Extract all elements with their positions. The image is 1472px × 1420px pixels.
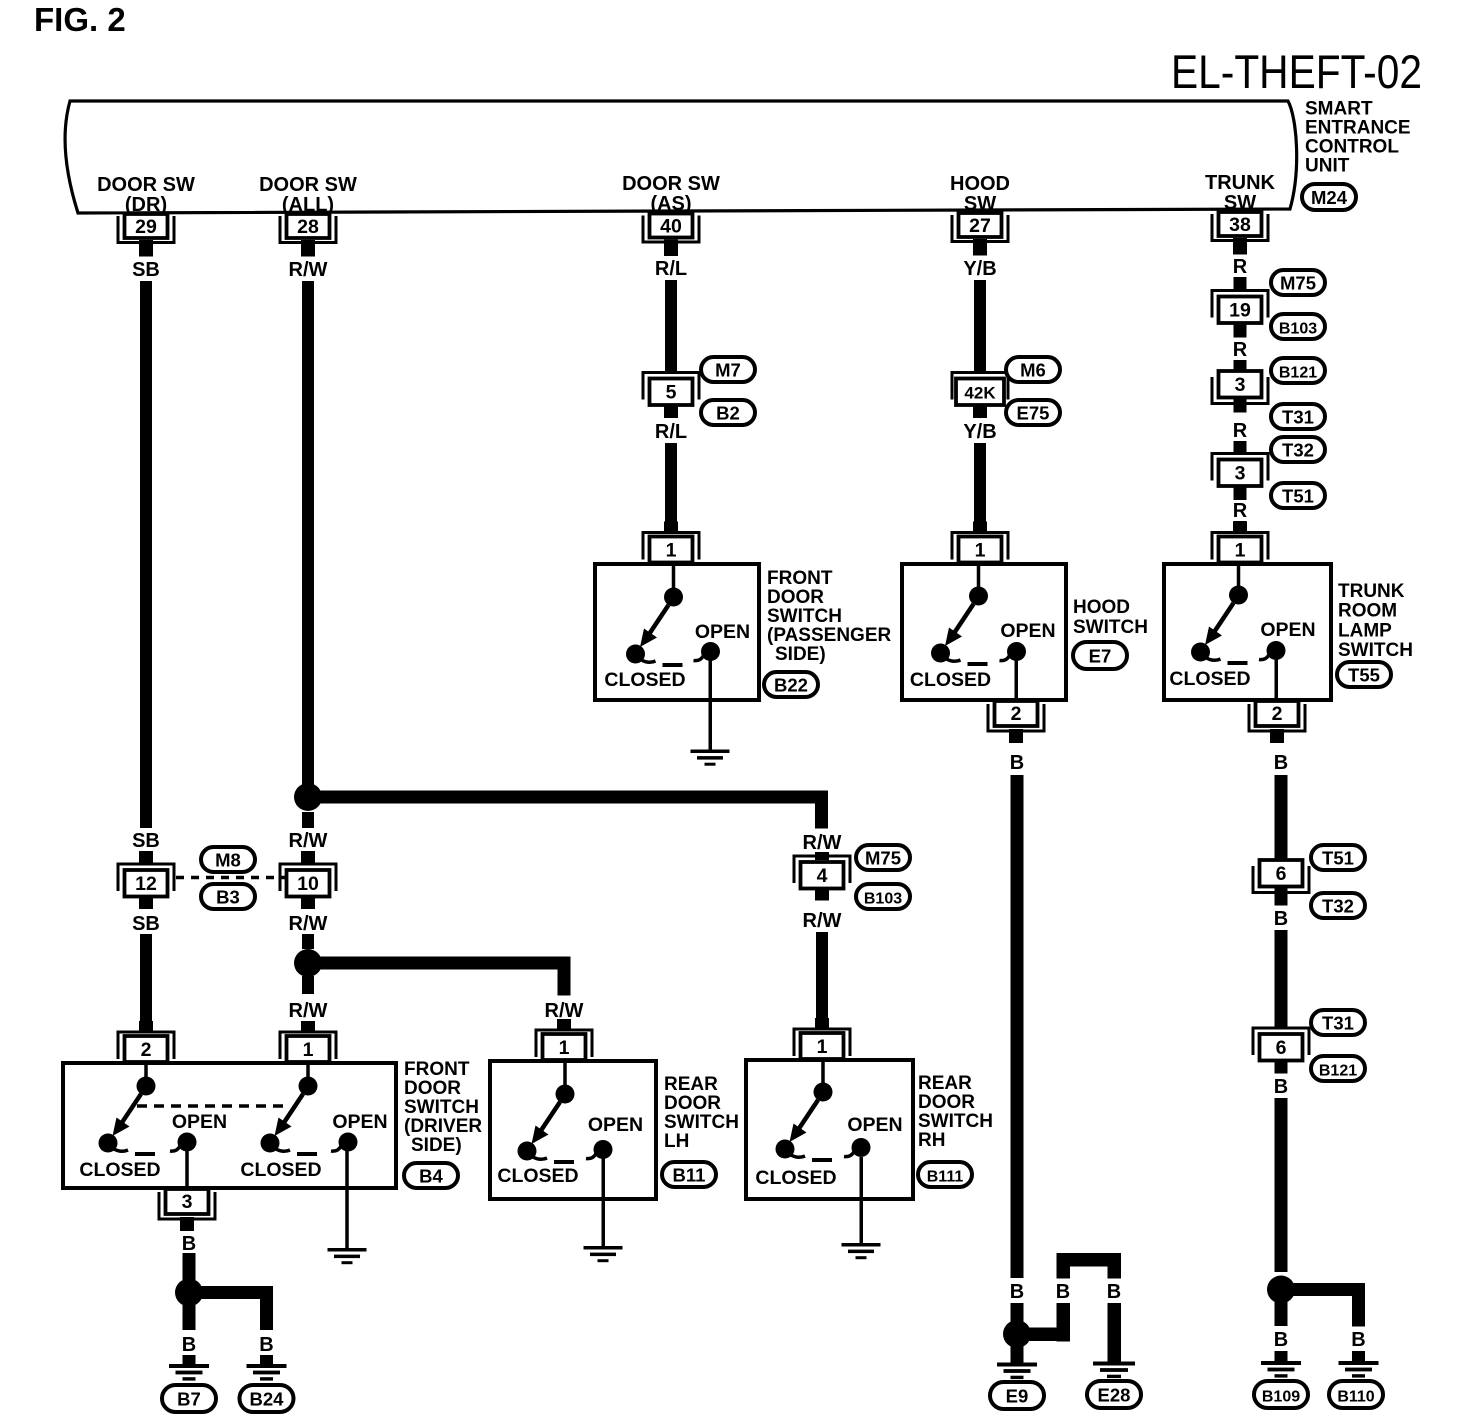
pin 1 trunk switch xyxy=(1212,522,1268,563)
label FRONT DOOR SWITCH (PASSENGER SIDE) xyxy=(767,568,892,665)
svg-text:DOOR SW: DOOR SW xyxy=(622,173,720,195)
ground B109 xyxy=(1261,1361,1301,1378)
wire open to pin2 trunk xyxy=(1275,659,1279,700)
wire E28 leg xyxy=(1108,1303,1122,1362)
ground LH xyxy=(584,1246,623,1262)
label R 2 xyxy=(1233,339,1248,361)
wire SB col1 xyxy=(140,281,152,828)
pin 2 driver switch xyxy=(118,1021,174,1062)
svg-text:1: 1 xyxy=(975,540,986,562)
svg-text:SB: SB xyxy=(132,913,160,935)
svg-text:B: B xyxy=(1010,752,1024,774)
svg-text:B103: B103 xyxy=(1279,321,1317,338)
wire open2 driver ground xyxy=(345,1151,349,1248)
svg-text:R/L: R/L xyxy=(655,258,687,280)
svg-text:LAMP: LAMP xyxy=(1338,620,1392,641)
svg-text:R: R xyxy=(1233,339,1248,361)
svg-text:CONTROL: CONTROL xyxy=(1305,137,1399,158)
ground wire LH xyxy=(602,1158,606,1246)
svg-text:LH: LH xyxy=(664,1131,689,1152)
svg-text:OPEN: OPEN xyxy=(847,1114,902,1136)
ground RH xyxy=(842,1243,881,1259)
svg-text:(PASSENGER: (PASSENGER xyxy=(767,625,892,646)
label TRUNK ROOM LAMP SWITCH xyxy=(1338,581,1413,661)
svg-text:TRUNK: TRUNK xyxy=(1338,581,1405,602)
connector 12 xyxy=(118,864,174,897)
svg-text:CLOSED: CLOSED xyxy=(79,1159,160,1181)
wire stub B7 b xyxy=(183,1355,196,1364)
wire B trunk seg1 xyxy=(1275,775,1288,860)
connector T31 trunk xyxy=(1271,404,1325,429)
svg-text:B11: B11 xyxy=(673,1165,706,1186)
wire B driver xyxy=(183,1253,196,1280)
svg-text:E7: E7 xyxy=(1089,646,1112,667)
connector 6 first xyxy=(1253,860,1309,893)
svg-text:1: 1 xyxy=(1235,540,1246,562)
svg-text:3: 3 xyxy=(182,1191,193,1213)
wire R seg1 xyxy=(1234,277,1247,290)
label REAR DOOR SWITCH LH xyxy=(664,1074,739,1152)
svg-text:B103: B103 xyxy=(864,891,902,908)
connector B121 lower xyxy=(1311,1056,1365,1081)
pin 40 xyxy=(643,214,699,257)
svg-text:R: R xyxy=(1233,500,1248,522)
connector 6 second stub xyxy=(1275,1061,1288,1074)
svg-text:T32: T32 xyxy=(1322,896,1354,917)
label B B110 xyxy=(1351,1329,1365,1351)
wire stub B110 b xyxy=(1352,1351,1365,1362)
svg-text:R/L: R/L xyxy=(655,421,687,443)
connector 6 second xyxy=(1253,1028,1309,1061)
svg-text:B: B xyxy=(1351,1329,1365,1351)
front door switch passenger box xyxy=(595,564,759,700)
svg-text:B: B xyxy=(1010,1281,1024,1303)
svg-text:R/W: R/W xyxy=(545,1000,584,1022)
ground E28 xyxy=(1093,1362,1135,1379)
wire R/W col2 xyxy=(302,281,314,786)
connector 19 stub bottom xyxy=(1234,323,1247,338)
svg-text:HOOD: HOOD xyxy=(1073,597,1130,618)
wire B trunk seg2 xyxy=(1275,930,1288,1028)
svg-text:CLOSED: CLOSED xyxy=(910,669,991,691)
svg-text:B: B xyxy=(1056,1281,1070,1303)
label DOOR SW (AS) xyxy=(622,173,720,215)
label OPEN passenger xyxy=(695,621,750,643)
connector B3 xyxy=(201,884,255,909)
junction node hood ground xyxy=(1003,1320,1031,1348)
connector B7 xyxy=(162,1385,216,1412)
svg-text:OPEN: OPEN xyxy=(1260,619,1315,641)
wire open to pin2 hood xyxy=(1015,660,1019,702)
svg-text:DOOR: DOOR xyxy=(404,1078,461,1099)
svg-text:RH: RH xyxy=(918,1130,945,1151)
connector 19 xyxy=(1212,291,1268,324)
svg-text:40: 40 xyxy=(660,216,682,238)
svg-text:T51: T51 xyxy=(1322,848,1354,869)
svg-text:OPEN: OPEN xyxy=(1000,620,1055,642)
label CLOSED passenger xyxy=(604,669,685,691)
ground driver open2 xyxy=(328,1248,367,1264)
wire R seg2 xyxy=(1234,360,1247,372)
connector B2 xyxy=(701,400,755,425)
ground wire RH xyxy=(860,1157,864,1244)
smart entrance control unit box xyxy=(65,101,1297,213)
label R/L 2 xyxy=(655,421,687,443)
label CLOSED hood xyxy=(910,669,991,691)
svg-text:CLOSED: CLOSED xyxy=(240,1159,321,1181)
svg-text:B110: B110 xyxy=(1337,1389,1374,1406)
label B E28 left xyxy=(1056,1281,1070,1303)
svg-text:R/W: R/W xyxy=(289,913,328,935)
wire stub B24 b xyxy=(260,1355,273,1364)
connector M75 RH xyxy=(856,845,910,870)
switch driver 2 xyxy=(261,1063,358,1156)
svg-text:SWITCH: SWITCH xyxy=(918,1111,993,1132)
svg-text:B: B xyxy=(1274,1076,1288,1098)
pin 3 driver switch xyxy=(159,1189,215,1231)
connector E7 xyxy=(1073,642,1127,669)
pin 1 driver switch xyxy=(280,1021,336,1062)
connector 5 xyxy=(643,373,699,406)
connector B111 xyxy=(918,1162,972,1187)
junction node driver ground xyxy=(175,1279,203,1307)
connector M24 xyxy=(1302,184,1356,210)
svg-text:B121: B121 xyxy=(1319,1063,1357,1080)
svg-text:T32: T32 xyxy=(1282,440,1314,461)
connector M7 xyxy=(701,357,755,382)
svg-text:SWITCH: SWITCH xyxy=(1073,617,1148,638)
svg-text:1: 1 xyxy=(303,1039,314,1061)
svg-text:10: 10 xyxy=(297,873,319,895)
connector M75 trunk xyxy=(1271,270,1325,295)
connector B109 xyxy=(1254,1381,1308,1408)
rear door switch RH box xyxy=(746,1060,913,1199)
svg-text:2: 2 xyxy=(1011,703,1022,725)
connector T32 trunk xyxy=(1271,437,1325,462)
connector 4 xyxy=(794,856,850,889)
svg-text:E28: E28 xyxy=(1098,1385,1131,1406)
connector 10 stub bottom xyxy=(301,897,315,910)
svg-text:SWITCH: SWITCH xyxy=(664,1112,739,1133)
svg-text:SWITCH: SWITCH xyxy=(1338,640,1413,661)
svg-text:4: 4 xyxy=(817,865,828,887)
connector B22 xyxy=(764,672,818,697)
svg-text:5: 5 xyxy=(666,382,677,404)
connector E28 xyxy=(1087,1381,1141,1408)
wire R/W RH xyxy=(816,932,828,1021)
connector 4 stub bottom xyxy=(815,889,829,901)
ground B110 xyxy=(1339,1361,1379,1378)
label Y/B 2 xyxy=(963,421,996,443)
svg-text:2: 2 xyxy=(1272,703,1283,725)
svg-text:SWITCH: SWITCH xyxy=(767,606,842,627)
label DOOR SW (DR) xyxy=(97,174,195,216)
pin 27 xyxy=(952,213,1008,256)
connector 3 first xyxy=(1212,371,1268,404)
svg-text:28: 28 xyxy=(297,216,319,238)
label B trunk 3 xyxy=(1274,1076,1288,1098)
hood switch box xyxy=(902,564,1066,700)
wire R seg3 xyxy=(1234,441,1247,453)
ground B7 xyxy=(169,1364,209,1381)
svg-text:3: 3 xyxy=(1235,374,1246,396)
label B B7 xyxy=(182,1334,196,1356)
label R/W col2 b xyxy=(289,830,328,852)
pin 2 trunk switch xyxy=(1249,701,1305,743)
svg-text:R: R xyxy=(1233,256,1248,278)
wire stub B109 b xyxy=(1275,1351,1288,1362)
label OPEN driver 1 xyxy=(172,1111,227,1133)
svg-text:B: B xyxy=(1274,752,1288,774)
svg-text:B: B xyxy=(182,1334,196,1356)
svg-text:(DRIVER: (DRIVER xyxy=(404,1116,482,1137)
svg-text:T31: T31 xyxy=(1282,407,1314,428)
wire R/L upper xyxy=(665,280,677,372)
wire branch B24 xyxy=(200,1286,273,1330)
svg-text:Y/B: Y/B xyxy=(963,421,996,443)
junction node col2 lower xyxy=(294,949,322,977)
svg-text:HOOD: HOOD xyxy=(950,173,1010,195)
connector B110 xyxy=(1329,1381,1383,1408)
switch LH xyxy=(518,1061,613,1164)
svg-text:B: B xyxy=(182,1233,196,1255)
label B B109 xyxy=(1274,1329,1288,1351)
connector 3 second stub xyxy=(1234,486,1247,500)
svg-text:FRONT: FRONT xyxy=(404,1059,470,1080)
svg-text:B109: B109 xyxy=(1262,1389,1300,1406)
label TRUNK SW xyxy=(1205,172,1276,214)
svg-text:3: 3 xyxy=(1235,463,1246,485)
ground E9 xyxy=(997,1363,1037,1380)
svg-text:FIG. 2: FIG. 2 xyxy=(34,1,126,38)
pin 2 hood switch xyxy=(988,701,1044,743)
svg-text:EL-THEFT-02: EL-THEFT-02 xyxy=(1171,45,1422,98)
svg-text:DOOR SW: DOOR SW xyxy=(259,174,357,196)
svg-text:1: 1 xyxy=(559,1037,570,1059)
label SB 3 xyxy=(132,913,160,935)
svg-text:B: B xyxy=(1107,1281,1121,1303)
svg-text:6: 6 xyxy=(1276,863,1287,885)
connector B24 xyxy=(240,1385,294,1412)
label R/W LH xyxy=(545,1000,584,1022)
svg-text:OPEN: OPEN xyxy=(332,1111,387,1133)
svg-text:OPEN: OPEN xyxy=(588,1114,643,1136)
svg-text:DOOR SW: DOOR SW xyxy=(97,174,195,196)
svg-text:ENTRANCE: ENTRANCE xyxy=(1305,118,1411,139)
wire stub E9 xyxy=(1011,1346,1024,1364)
svg-text:B3: B3 xyxy=(216,887,240,908)
svg-text:19: 19 xyxy=(1229,300,1251,322)
label CLOSED trunk xyxy=(1169,668,1250,690)
label R 1 xyxy=(1233,256,1248,278)
connector 12 stub bottom xyxy=(139,897,153,910)
svg-text:DOOR: DOOR xyxy=(918,1092,975,1113)
junction node trunk ground xyxy=(1267,1276,1295,1304)
label SB 2 xyxy=(132,830,160,852)
label R/W col2 d xyxy=(289,1000,328,1022)
junction node col2 upper xyxy=(294,783,322,811)
wire col2 seg xyxy=(302,934,314,949)
label OPEN trunk xyxy=(1260,619,1315,641)
wire branch E28 xyxy=(1028,1253,1121,1342)
svg-text:M7: M7 xyxy=(715,360,741,381)
svg-text:UNIT: UNIT xyxy=(1305,156,1350,177)
svg-text:29: 29 xyxy=(135,216,157,238)
connector 5 stub bottom xyxy=(664,405,678,418)
connector 12 stub top xyxy=(139,851,153,865)
label R/W RH 2 xyxy=(803,910,842,932)
label Y/B xyxy=(963,258,996,280)
wire open1 to pin3 xyxy=(185,1151,189,1188)
pin 1 hood switch xyxy=(952,522,1008,563)
connector T51 lower xyxy=(1311,845,1365,870)
wire R seg4 xyxy=(1234,521,1247,532)
svg-text:ROOM: ROOM xyxy=(1338,601,1397,622)
connector E9 xyxy=(990,1382,1044,1409)
svg-text:42K: 42K xyxy=(964,384,996,403)
label CLOSED driver 1 xyxy=(79,1159,160,1181)
label HOOD SW xyxy=(950,173,1010,215)
dashed link M8/B3 xyxy=(176,876,296,880)
connector 6 first stub xyxy=(1275,887,1288,906)
connector B11 xyxy=(662,1162,716,1187)
label SMART ENTRANCE CONTROL UNIT xyxy=(1305,99,1411,177)
svg-text:OPEN: OPEN xyxy=(172,1111,227,1133)
svg-text:R: R xyxy=(1233,420,1248,442)
connector 4 stub top xyxy=(815,852,829,860)
wire SB col1 lower xyxy=(140,934,152,1021)
connector 3 second xyxy=(1212,454,1268,487)
svg-text:SWITCH: SWITCH xyxy=(404,1097,479,1118)
ground passenger xyxy=(691,750,730,766)
svg-text:38: 38 xyxy=(1229,214,1251,236)
svg-text:M8: M8 xyxy=(215,850,241,871)
svg-text:E9: E9 xyxy=(1006,1386,1029,1407)
svg-text:CLOSED: CLOSED xyxy=(604,669,685,691)
trunk room lamp switch box xyxy=(1164,564,1331,700)
svg-text:SIDE): SIDE) xyxy=(411,1135,462,1156)
label HOOD SWITCH xyxy=(1073,597,1148,638)
svg-text:R/W: R/W xyxy=(289,830,328,852)
label OPEN driver 2 xyxy=(332,1111,387,1133)
svg-text:R/W: R/W xyxy=(289,259,328,281)
svg-text:B: B xyxy=(259,1334,273,1356)
label R 4 xyxy=(1233,500,1248,522)
svg-text:R/W: R/W xyxy=(289,1000,328,1022)
connector 10 stub top xyxy=(301,851,315,865)
label B driver xyxy=(182,1233,196,1255)
connector B4 xyxy=(404,1163,458,1188)
pin 1 rear LH xyxy=(536,1019,592,1060)
label CLOSED LH xyxy=(497,1165,578,1187)
svg-text:1: 1 xyxy=(666,540,677,562)
label CLOSED driver 2 xyxy=(240,1159,321,1181)
label DOOR SW (ALL) xyxy=(259,174,357,216)
label R/W col2 xyxy=(289,259,328,281)
svg-text:M6: M6 xyxy=(1020,360,1046,381)
svg-text:B4: B4 xyxy=(419,1166,443,1187)
connector M8 xyxy=(201,847,255,872)
connector M6 xyxy=(1006,357,1060,382)
wire B hood xyxy=(1011,775,1024,1278)
svg-text:CLOSED: CLOSED xyxy=(755,1167,836,1189)
wire Y/B lower xyxy=(974,443,986,523)
connector T51 trunk xyxy=(1271,483,1325,508)
connector B103 RH xyxy=(856,884,910,909)
connector 3 first stub xyxy=(1234,398,1247,413)
connector B121 trunk xyxy=(1271,358,1325,383)
wire B hood lower xyxy=(1011,1303,1024,1323)
svg-text:B121: B121 xyxy=(1279,365,1317,382)
dashed line driver xyxy=(137,1104,290,1108)
connector T32 lower xyxy=(1311,893,1365,918)
svg-text:6: 6 xyxy=(1276,1037,1287,1059)
svg-text:REAR: REAR xyxy=(918,1073,972,1094)
svg-text:B: B xyxy=(1274,908,1288,930)
svg-text:R/W: R/W xyxy=(803,832,842,854)
svg-text:T31: T31 xyxy=(1322,1013,1354,1034)
wire stub below node xyxy=(302,812,314,828)
label B trunk xyxy=(1274,752,1288,774)
svg-text:B111: B111 xyxy=(927,1169,964,1186)
label FRONT DOOR SWITCH (DRIVER SIDE) xyxy=(404,1059,482,1156)
svg-text:B: B xyxy=(1274,1329,1288,1351)
svg-text:DOOR: DOOR xyxy=(664,1093,721,1114)
ground B24 xyxy=(247,1364,287,1381)
label CLOSED RH xyxy=(755,1167,836,1189)
wire stub below node 2 xyxy=(302,976,314,994)
svg-text:M75: M75 xyxy=(1280,273,1316,294)
ground wire passenger xyxy=(709,660,713,750)
connector 10 xyxy=(280,864,336,897)
svg-text:DOOR: DOOR xyxy=(767,587,824,608)
switch RH xyxy=(776,1060,871,1162)
wire branch to LH xyxy=(318,957,571,996)
wire stub B109 xyxy=(1275,1301,1288,1326)
svg-text:OPEN: OPEN xyxy=(695,621,750,643)
svg-text:T51: T51 xyxy=(1282,486,1314,507)
pin 1 passenger switch xyxy=(643,522,699,563)
svg-text:B7: B7 xyxy=(177,1389,201,1410)
svg-text:SMART: SMART xyxy=(1305,99,1373,120)
wire branch B110 xyxy=(1292,1283,1365,1327)
svg-text:R/W: R/W xyxy=(803,910,842,932)
svg-text:REAR: REAR xyxy=(664,1074,718,1095)
svg-text:M75: M75 xyxy=(865,848,901,869)
svg-text:SB: SB xyxy=(132,259,160,281)
svg-text:SIDE): SIDE) xyxy=(775,644,826,665)
svg-text:T55: T55 xyxy=(1348,665,1380,686)
label OPEN RH xyxy=(847,1114,902,1136)
svg-text:B22: B22 xyxy=(774,675,808,696)
switch passenger xyxy=(626,564,720,667)
connector T31 lower xyxy=(1311,1010,1365,1035)
svg-text:E75: E75 xyxy=(1017,403,1050,424)
svg-text:CLOSED: CLOSED xyxy=(497,1165,578,1187)
label SB xyxy=(132,259,160,281)
label B trunk 2 xyxy=(1274,908,1288,930)
label B hood 2 xyxy=(1010,1281,1024,1303)
svg-text:CLOSED: CLOSED xyxy=(1169,668,1250,690)
label B B24 xyxy=(259,1334,273,1356)
svg-text:Y/B: Y/B xyxy=(963,258,996,280)
svg-text:M24: M24 xyxy=(1311,187,1348,208)
title FIG. 2 xyxy=(34,1,126,38)
connector B103 trunk xyxy=(1271,314,1325,339)
label REAR DOOR SWITCH RH xyxy=(918,1073,993,1151)
label OPEN LH xyxy=(588,1114,643,1136)
label R 3 xyxy=(1233,420,1248,442)
